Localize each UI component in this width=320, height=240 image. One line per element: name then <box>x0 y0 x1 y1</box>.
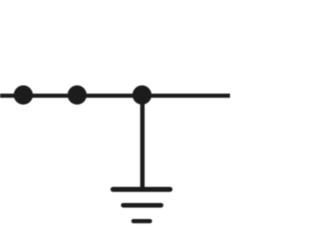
junction dot 3 (node joining vertical wire) <box>132 85 151 104</box>
wire: horizontal net (full width) <box>0 94 232 98</box>
junction dot 2 <box>68 85 87 104</box>
ground <box>113 189 170 221</box>
junction dot 1 <box>14 85 33 104</box>
wire: vertical drop to ground <box>140 95 144 189</box>
